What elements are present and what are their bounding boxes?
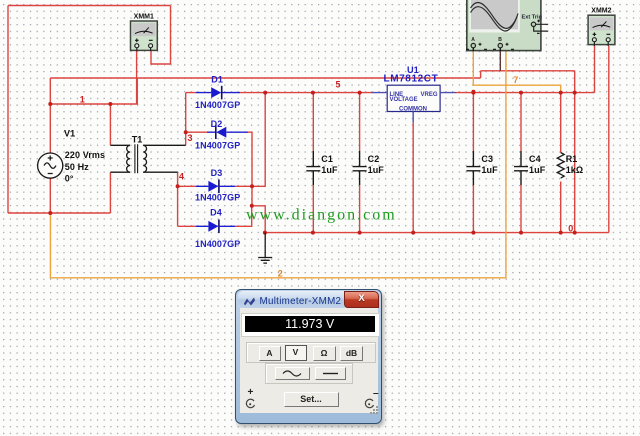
svg-text:V1: V1 xyxy=(64,129,75,139)
svg-text:0: 0 xyxy=(568,224,573,234)
svg-text:1: 1 xyxy=(80,94,85,104)
svg-text:1uF: 1uF xyxy=(368,165,385,175)
svg-text:1kΩ: 1kΩ xyxy=(566,165,584,175)
svg-text:D2: D2 xyxy=(211,119,223,129)
svg-text:C3: C3 xyxy=(481,154,493,164)
svg-text:Ext Trig: Ext Trig xyxy=(522,14,543,20)
svg-text:XMM1: XMM1 xyxy=(134,14,154,21)
svg-text:R1: R1 xyxy=(566,154,578,164)
svg-text:A: A xyxy=(471,37,475,43)
svg-text:C2: C2 xyxy=(368,154,380,164)
svg-text:1N4007GP: 1N4007GP xyxy=(195,100,240,110)
svg-text:XMM2: XMM2 xyxy=(591,8,611,15)
svg-text:B: B xyxy=(498,37,502,43)
svg-text:0°: 0° xyxy=(65,173,74,183)
svg-text:C1: C1 xyxy=(321,154,333,164)
svg-text:VREG: VREG xyxy=(420,92,437,98)
svg-text:4: 4 xyxy=(179,171,184,181)
svg-text:T1: T1 xyxy=(132,134,143,144)
svg-text:1uF: 1uF xyxy=(321,165,338,175)
svg-text:1N4007GP: 1N4007GP xyxy=(195,239,240,249)
svg-text:COMMON: COMMON xyxy=(399,106,427,112)
svg-text:1uF: 1uF xyxy=(529,165,546,175)
svg-text:LM7812CT: LM7812CT xyxy=(384,73,439,84)
svg-text:D3: D3 xyxy=(211,168,223,178)
svg-text:3: 3 xyxy=(188,133,193,143)
svg-text:VOLTAGE: VOLTAGE xyxy=(390,97,418,103)
svg-text:5: 5 xyxy=(336,79,341,89)
svg-text:1N4007GP: 1N4007GP xyxy=(195,193,240,203)
svg-text:50 Hz: 50 Hz xyxy=(65,162,89,172)
svg-text:220 Vrms: 220 Vrms xyxy=(65,150,105,160)
svg-text:1uF: 1uF xyxy=(481,165,498,175)
svg-text:7: 7 xyxy=(513,75,518,85)
svg-text:1N4007GP: 1N4007GP xyxy=(195,140,240,150)
svg-text:C4: C4 xyxy=(529,154,541,164)
svg-text:www.diangon.com: www.diangon.com xyxy=(246,207,397,224)
svg-text:D4: D4 xyxy=(210,208,222,218)
svg-text:2: 2 xyxy=(278,269,283,279)
svg-text:D1: D1 xyxy=(211,74,223,84)
